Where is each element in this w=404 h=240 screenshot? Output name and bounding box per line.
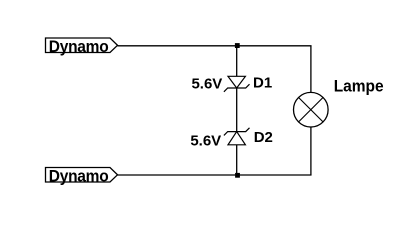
svg-text:Dynamo: Dynamo xyxy=(49,37,109,56)
svg-text:5.6V: 5.6V xyxy=(190,132,221,149)
svg-text:Dynamo: Dynamo xyxy=(49,167,109,186)
svg-text:D2: D2 xyxy=(254,129,273,146)
svg-text:5.6V: 5.6V xyxy=(191,76,222,93)
svg-text:Lampe: Lampe xyxy=(334,77,384,96)
svg-text:D1: D1 xyxy=(253,75,272,92)
